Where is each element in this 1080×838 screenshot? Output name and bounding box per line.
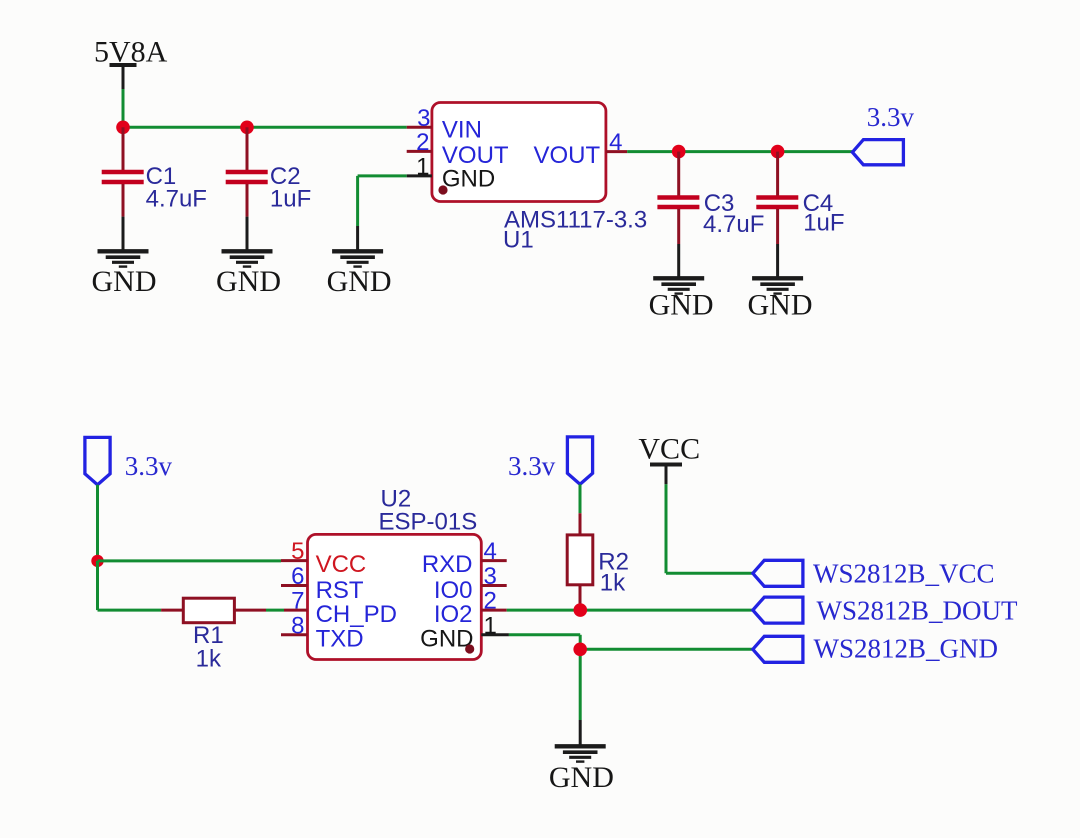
pin 1 stub U1	[407, 174, 432, 177]
svg-text:3.3v: 3.3v	[508, 451, 556, 481]
pin 5 stub U2	[281, 559, 308, 562]
power flag VCC	[638, 433, 700, 485]
svg-text:2: 2	[416, 129, 429, 156]
svg-text:VOUT: VOUT	[534, 142, 601, 169]
node junction at C4	[771, 145, 785, 159]
svg-text:1uF: 1uF	[270, 186, 311, 213]
node junction left 3.3v	[91, 555, 103, 567]
pin 4 stub U2	[481, 559, 506, 562]
svg-text:4.7uF: 4.7uF	[703, 211, 764, 238]
svg-text:4.7uF: 4.7uF	[146, 186, 207, 213]
svg-text:1: 1	[484, 612, 497, 639]
wire U1 GND pin to ground	[358, 176, 407, 250]
svg-text:4: 4	[484, 538, 497, 565]
node junction at C3	[672, 145, 686, 159]
wire top rail VIN	[123, 126, 407, 129]
wire VCC net to U2 pin5	[98, 559, 282, 562]
svg-text:GND: GND	[549, 761, 614, 794]
capacitor C4	[756, 152, 844, 244]
svg-text:U1: U1	[503, 227, 534, 254]
op-amp U1 regulator AMS1117-3.3	[432, 103, 647, 254]
svg-text:2: 2	[484, 588, 497, 615]
pin 6 stub U2	[281, 584, 308, 587]
svg-text:RST: RST	[316, 577, 364, 604]
svg-text:WS2812B_GND: WS2812B_GND	[814, 634, 999, 664]
svg-text:VCC: VCC	[638, 433, 700, 466]
resistor R2	[567, 513, 629, 610]
svg-text:VCC: VCC	[316, 551, 367, 578]
node junction at C1	[116, 121, 130, 135]
svg-text:1uF: 1uF	[803, 210, 844, 237]
wire VOUT rail	[627, 150, 852, 153]
svg-text:IO2: IO2	[434, 601, 473, 628]
svg-text:8: 8	[291, 612, 304, 639]
ground under C3	[649, 278, 714, 321]
op-amp U2 ESP-01S	[308, 486, 482, 660]
capacitor C1	[102, 127, 207, 216]
net flag 3.3v output	[852, 102, 914, 165]
svg-text:RXD: RXD	[422, 551, 473, 578]
net flag 3.3v left	[85, 437, 173, 484]
svg-text:1: 1	[416, 153, 429, 180]
svg-text:5: 5	[291, 538, 304, 565]
wire GND pin1 net	[509, 635, 753, 745]
wire 3.3v to R2	[579, 484, 582, 513]
capacitor C2	[226, 127, 312, 216]
net flag WS2812B_VCC	[753, 558, 995, 588]
svg-text:1k: 1k	[600, 570, 626, 597]
svg-text:CH_PD: CH_PD	[316, 601, 397, 628]
svg-text:GND: GND	[649, 289, 714, 322]
net flag WS2812B_DOUT	[753, 596, 1018, 626]
wire down to R1 row	[98, 561, 162, 610]
node junction R2/IO2	[574, 603, 588, 617]
svg-text:TXD: TXD	[316, 626, 364, 653]
ground under C4	[748, 278, 813, 321]
wire C4 to ground	[776, 244, 779, 277]
svg-text:WS2812B_DOUT: WS2812B_DOUT	[817, 596, 1019, 626]
wire C3 to ground	[677, 244, 680, 277]
pin 7 stub U2	[284, 609, 308, 612]
ground under C1	[92, 251, 157, 298]
pin 1 stub U2	[481, 633, 509, 636]
node junction at C2	[240, 121, 254, 135]
svg-text:6: 6	[291, 563, 304, 590]
wire C1 to ground	[122, 217, 125, 250]
capacitor C3	[657, 152, 764, 244]
wire 5V8A stub	[122, 89, 125, 127]
net flag 3.3v at R2	[508, 437, 593, 484]
ground under C2	[216, 251, 281, 298]
wire 3.3v to junction	[96, 485, 99, 561]
svg-text:GND: GND	[442, 166, 495, 193]
pin 3 stub U2	[481, 584, 506, 587]
svg-text:VIN: VIN	[442, 117, 482, 144]
svg-text:IO0: IO0	[434, 577, 473, 604]
wire VCC to WS2812B_VCC flag	[666, 484, 753, 573]
pin 3 stub U1	[407, 126, 432, 129]
svg-text:1k: 1k	[196, 646, 222, 673]
ground at U1 GND	[327, 251, 392, 298]
pin 2 stub U2	[481, 609, 506, 612]
svg-text:WS2812B_VCC: WS2812B_VCC	[813, 558, 995, 588]
svg-text:4: 4	[609, 129, 622, 156]
net flag WS2812B_GND	[753, 634, 998, 664]
svg-text:ESP-01S: ESP-01S	[379, 509, 478, 536]
wire C2 to ground	[246, 217, 249, 250]
svg-text:3.3v: 3.3v	[125, 451, 173, 481]
resistor R1	[161, 598, 266, 672]
svg-text:GND: GND	[216, 265, 281, 298]
pin 2 stub U1	[407, 150, 432, 153]
pin 8 stub U2	[281, 633, 308, 636]
ground bottom	[549, 746, 614, 794]
svg-text:7: 7	[291, 588, 304, 615]
svg-text:3.3v: 3.3v	[867, 102, 915, 132]
pin 4 stub U1	[606, 150, 627, 153]
svg-text:3: 3	[417, 105, 430, 132]
power flag 5V8A	[94, 36, 168, 90]
svg-text:GND: GND	[327, 265, 392, 298]
svg-text:3: 3	[484, 563, 497, 590]
svg-text:GND: GND	[748, 289, 813, 322]
wire R1 to pin7	[266, 609, 284, 612]
node junction GND net	[573, 643, 587, 657]
svg-text:GND: GND	[92, 265, 157, 298]
wire IO2 net to DOUT flag	[507, 609, 753, 612]
